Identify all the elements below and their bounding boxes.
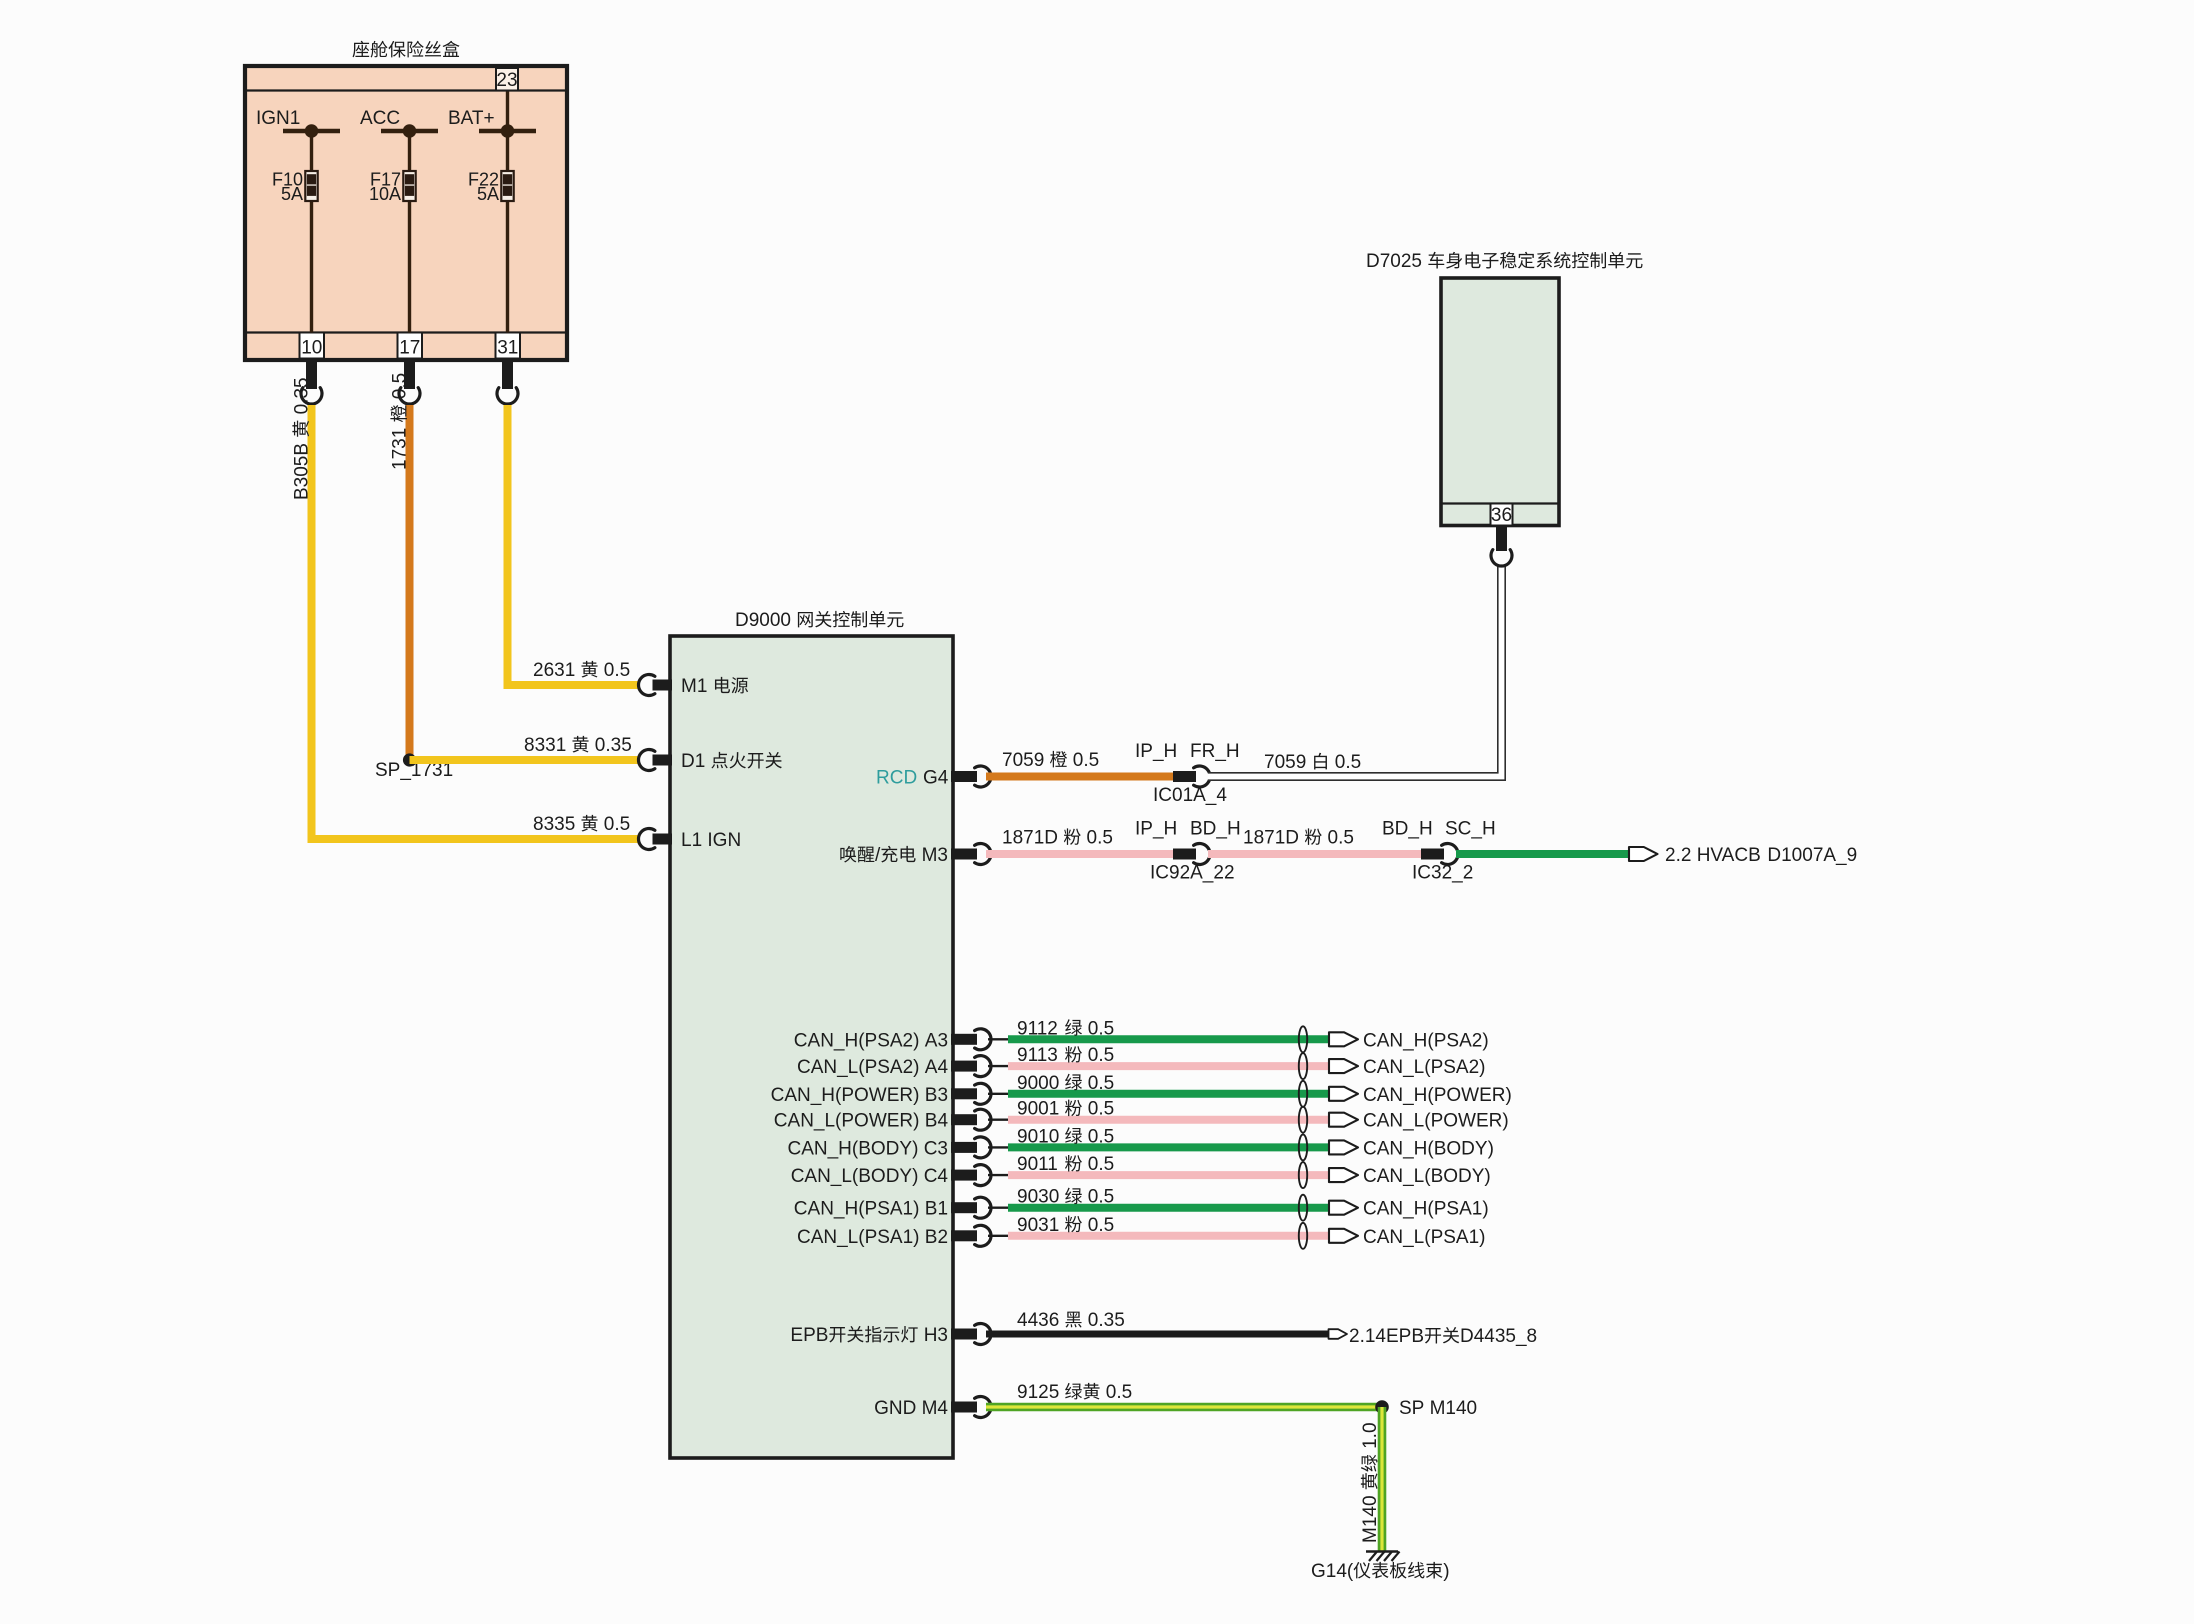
junction IC32_2 (BD_H / SC_H) — [1382, 819, 1496, 884]
ESC control unit D7025 车身电子稳定系统控制单元 — [1441, 278, 1559, 526]
pin M1 (D9000 left) — [638, 675, 748, 698]
node BAT+ bus — [448, 92, 536, 138]
svg-text:CAN_L(PSA1): CAN_L(PSA1) — [797, 1227, 920, 1248]
svg-text:CAN_H(BODY): CAN_H(BODY) — [1363, 1138, 1494, 1159]
wire B305B 黄 0.35 (pin 10 to L1) — [292, 377, 639, 839]
twisted pair mark (CAN_H(PSA2)) — [1299, 1026, 1307, 1052]
svg-text:9011: 9011 — [1017, 1154, 1058, 1175]
pin D1 (D9000 left) — [638, 750, 781, 773]
svg-text:M140: M140 — [1360, 1495, 1381, 1543]
off-page arrow CAN_H(PSA1) — [1329, 1199, 1489, 1220]
pin C3 CAN_H(BODY) (D9000 right) — [788, 1137, 992, 1160]
svg-text:1871D: 1871D — [1002, 828, 1058, 849]
wire 7059 橙 0.5 (G4 to IC01A_4) — [986, 750, 1173, 777]
off-page arrow CAN_H(PSA2) — [1329, 1030, 1489, 1051]
svg-text:BD_H: BD_H — [1382, 819, 1433, 840]
svg-text:1871D: 1871D — [1243, 828, 1299, 849]
fuse F22 5A — [468, 131, 514, 333]
svg-text:): ) — [1443, 1561, 1449, 1582]
svg-text:9000: 9000 — [1017, 1073, 1059, 1094]
svg-text:IC01A_4: IC01A_4 — [1153, 785, 1227, 806]
connector at fuse box pin 10 — [301, 360, 322, 404]
svg-text:CAN_L(BODY): CAN_L(BODY) — [791, 1166, 919, 1187]
pin 31 (fuse box bottom) — [496, 333, 521, 359]
svg-text:9113: 9113 — [1017, 1045, 1058, 1066]
svg-text:IGN: IGN — [707, 830, 741, 851]
svg-text:0.5: 0.5 — [604, 660, 630, 681]
twisted pair mark (CAN_L(PSA1)) — [1299, 1223, 1307, 1249]
svg-text:9010: 9010 — [1017, 1126, 1059, 1147]
pin B2 CAN_L(PSA1) (D9000 right) — [797, 1225, 991, 1248]
twisted pair mark (CAN_L(PSA2)) — [1299, 1053, 1307, 1079]
wire green to 2.2 HVACB D1007A_9 — [1456, 850, 1629, 858]
svg-text:0.5: 0.5 — [1088, 1215, 1114, 1236]
svg-text:2.2: 2.2 — [1665, 845, 1691, 866]
wire 9125 绿黄 0.5 (M4 to SP M140) — [986, 1382, 1382, 1407]
svg-text:0.5: 0.5 — [1088, 1099, 1114, 1120]
wire 9030 绿 0.5 (CAN_H(PSA1)) — [988, 1187, 1329, 1208]
off-page arrow CAN_L(PSA1) — [1329, 1227, 1486, 1248]
svg-text:0.5: 0.5 — [1088, 1018, 1114, 1039]
connector at fuse box pin 31 — [497, 360, 518, 404]
pin G4 RCD (D9000 right) — [876, 766, 991, 789]
svg-text:CAN_H(PSA2): CAN_H(PSA2) — [794, 1030, 920, 1051]
connector at D7025 pin 36 — [1491, 526, 1512, 567]
twisted pair mark (CAN_L(BODY)) — [1299, 1162, 1307, 1188]
wire 9010 绿 0.5 (CAN_H(BODY)) — [988, 1126, 1329, 1147]
svg-text:RCD: RCD — [876, 768, 917, 789]
wire 9113 粉 0.5 (CAN_L(PSA2)) — [988, 1045, 1329, 1066]
off-page arrow CAN_H(POWER) — [1329, 1085, 1512, 1106]
svg-text:EPB: EPB — [790, 1325, 828, 1346]
svg-text:CAN_H(POWER): CAN_H(POWER) — [1363, 1085, 1512, 1106]
pin B1 CAN_H(PSA1) (D9000 right) — [794, 1197, 991, 1219]
svg-text:D1: D1 — [681, 751, 705, 772]
wire 9000 绿 0.5 (CAN_H(POWER)) — [988, 1073, 1329, 1094]
svg-text:4436: 4436 — [1017, 1310, 1059, 1331]
svg-text:BAT+: BAT+ — [448, 108, 495, 129]
svg-text:G14(: G14( — [1311, 1561, 1354, 1582]
twisted pair mark (CAN_L(POWER)) — [1299, 1107, 1307, 1133]
pin 17 (fuse box bottom) — [398, 333, 423, 359]
pin C4 CAN_L(BODY) (D9000 right) — [791, 1165, 991, 1187]
pin 36 (D7025 bottom) — [1491, 504, 1513, 527]
pin B3 CAN_H(POWER) (D9000 right) — [771, 1083, 991, 1106]
svg-text:8335: 8335 — [533, 814, 575, 835]
svg-text:0.5: 0.5 — [1073, 750, 1099, 771]
node SP M140 — [1375, 1398, 1477, 1419]
node IGN1 bus — [256, 108, 340, 138]
svg-text:9031: 9031 — [1017, 1215, 1059, 1236]
svg-text:CAN_L(POWER): CAN_L(POWER) — [1363, 1111, 1509, 1132]
svg-text:IP_H: IP_H — [1135, 819, 1177, 840]
svg-text:0.5: 0.5 — [604, 814, 630, 835]
svg-text:10A: 10A — [369, 184, 401, 204]
junction IC92A_22 (IP_H / BD_H) — [1135, 819, 1241, 884]
pin M3 唤醒/充电 (D9000 right) — [840, 844, 991, 866]
off-page arrow 2.14 EPB 开关 D4435_8 — [1329, 1326, 1538, 1347]
svg-text:23: 23 — [496, 70, 517, 91]
wire 4436 黑 0.35 (H3 to EPB switch) — [986, 1310, 1328, 1334]
svg-text:CAN_H(BODY): CAN_H(BODY) — [788, 1138, 919, 1159]
svg-text:CAN_L(PSA2): CAN_L(PSA2) — [797, 1057, 920, 1078]
svg-text:IP_H: IP_H — [1135, 741, 1177, 762]
pin 10 (fuse box bottom) — [300, 333, 325, 359]
wire 2631 黄 0.5 (pin 31 to M1) — [508, 405, 639, 685]
svg-text:GND: GND — [874, 1398, 916, 1419]
wire M140 黄绿 1.0 (SP M140 to ground) — [1360, 1407, 1382, 1551]
fuse box title 座舱保险丝盒 — [352, 41, 459, 58]
twisted pair mark (CAN_H(POWER)) — [1299, 1081, 1307, 1107]
svg-text:D4435_8: D4435_8 — [1460, 1326, 1537, 1347]
pin 23 (fuse box top) — [496, 68, 518, 91]
fuse box 座舱保险丝盒 — [245, 66, 567, 360]
off-page arrow CAN_L(BODY) — [1329, 1166, 1491, 1187]
pin B4 CAN_L(POWER) (D9000 right) — [774, 1109, 991, 1131]
junction IC01A_4 (IP_H / FR_H) — [1135, 741, 1240, 806]
wire 1871D 粉 0.5 (IC92A_22 to IC32_2) — [1208, 828, 1421, 855]
svg-text:SC_H: SC_H — [1445, 819, 1496, 840]
connector at fuse box pin 17 — [399, 360, 420, 404]
svg-text:7059: 7059 — [1002, 750, 1044, 771]
svg-text:BD_H: BD_H — [1190, 819, 1241, 840]
D7025 title — [1366, 251, 1643, 272]
svg-text:IGN1: IGN1 — [256, 108, 300, 129]
svg-text:0.5: 0.5 — [1088, 1126, 1114, 1147]
svg-text:9001: 9001 — [1017, 1099, 1059, 1120]
pin A3 CAN_H(PSA2) (D9000 right) — [794, 1029, 991, 1052]
svg-text:B3: B3 — [925, 1085, 948, 1106]
wire 1731 橙 0.5 (pin 17 to SP_1731) — [390, 373, 411, 760]
svg-text:0.5: 0.5 — [1106, 1382, 1132, 1403]
svg-text:B4: B4 — [925, 1111, 949, 1132]
svg-text:L1: L1 — [681, 830, 702, 851]
svg-text:1.0: 1.0 — [1360, 1422, 1381, 1448]
wire 9001 粉 0.5 (CAN_L(POWER)) — [988, 1099, 1329, 1120]
svg-text:G4: G4 — [923, 768, 949, 789]
node ACC bus — [360, 108, 438, 138]
wire 9011 粉 0.5 (CAN_L(BODY)) — [988, 1154, 1329, 1175]
node SP_1731 — [375, 753, 453, 781]
svg-text:M3: M3 — [922, 845, 948, 866]
wire 1871D 粉 0.5 (M3 to IC92A_22) — [986, 828, 1173, 855]
svg-text:0.5: 0.5 — [1088, 1187, 1114, 1208]
svg-text:/: / — [875, 845, 881, 866]
svg-text:IC32_2: IC32_2 — [1412, 863, 1473, 884]
svg-text:CAN_L(PSA1): CAN_L(PSA1) — [1363, 1227, 1486, 1248]
svg-text:31: 31 — [497, 338, 518, 359]
svg-text:0.5: 0.5 — [1088, 1154, 1114, 1175]
pin A4 CAN_L(PSA2) (D9000 right) — [797, 1056, 991, 1078]
svg-text:2631: 2631 — [533, 660, 575, 681]
svg-text:36: 36 — [1491, 505, 1512, 526]
svg-text:0.5: 0.5 — [390, 373, 411, 399]
svg-text:B2: B2 — [925, 1227, 948, 1248]
svg-text:0.35: 0.35 — [1088, 1310, 1125, 1331]
svg-text:SP: SP — [1399, 1398, 1424, 1419]
svg-text:CAN_H(PSA1): CAN_H(PSA1) — [1363, 1199, 1489, 1220]
svg-text:CAN_L(BODY): CAN_L(BODY) — [1363, 1166, 1491, 1187]
svg-text:10: 10 — [301, 338, 322, 359]
svg-text:C4: C4 — [924, 1166, 949, 1187]
svg-text:0.35: 0.35 — [292, 377, 313, 414]
svg-text:FR_H: FR_H — [1190, 741, 1240, 762]
svg-text:0.5: 0.5 — [1087, 828, 1113, 849]
ground G14 — [1311, 1552, 1450, 1583]
wire 8331 黄 0.35 (SP_1731 to D1) — [410, 735, 639, 760]
svg-text:B1: B1 — [925, 1199, 948, 1220]
svg-text:CAN_L(PSA2): CAN_L(PSA2) — [1363, 1057, 1486, 1078]
svg-text:8331: 8331 — [524, 735, 566, 756]
wire 9031 粉 0.5 (CAN_L(PSA1)) — [988, 1215, 1329, 1236]
svg-text:9112: 9112 — [1017, 1018, 1058, 1039]
svg-text:0.5: 0.5 — [1335, 752, 1361, 773]
svg-text:0.5: 0.5 — [1088, 1073, 1114, 1094]
svg-text:IC92A_22: IC92A_22 — [1150, 863, 1235, 884]
wire 7059 白 0.5 (IC01A_4 to D7025 pin 36) — [1208, 566, 1502, 777]
svg-text:5A: 5A — [281, 184, 303, 204]
D9000 title — [735, 610, 904, 631]
svg-text:9125: 9125 — [1017, 1382, 1059, 1403]
gateway control unit D9000 网关控制单元 — [670, 636, 953, 1458]
svg-text:7059: 7059 — [1264, 752, 1306, 773]
svg-text:0.5: 0.5 — [1328, 828, 1354, 849]
off-page arrow CAN_H(BODY) — [1329, 1138, 1494, 1159]
off-page arrow 2.2 HVACB D1007A_9 — [1629, 845, 1857, 866]
svg-text:9030: 9030 — [1017, 1187, 1059, 1208]
fuse F17 10A — [369, 131, 416, 333]
twisted pair mark (CAN_H(PSA1)) — [1299, 1195, 1307, 1221]
svg-text:0.5: 0.5 — [1088, 1045, 1114, 1066]
pin H3 EPB开关指示灯 (D9000 right) — [790, 1324, 991, 1346]
svg-text:5A: 5A — [477, 184, 499, 204]
svg-text:A3: A3 — [925, 1030, 948, 1051]
pin M4 GND (D9000 right) — [874, 1397, 991, 1419]
svg-text:M140: M140 — [1430, 1398, 1478, 1419]
off-page arrow CAN_L(PSA2) — [1329, 1057, 1486, 1078]
svg-text:D1007A_9: D1007A_9 — [1767, 845, 1857, 866]
off-page arrow CAN_L(POWER) — [1329, 1111, 1509, 1132]
wire 8335 黄 0.5 label (L1 row) — [533, 814, 630, 835]
fuse F10 5A — [272, 131, 318, 333]
svg-text:H3: H3 — [924, 1325, 948, 1346]
svg-text:A4: A4 — [925, 1057, 949, 1078]
svg-text:CAN_L(POWER): CAN_L(POWER) — [774, 1111, 920, 1132]
svg-text:M4: M4 — [922, 1398, 949, 1419]
svg-text:ACC: ACC — [360, 108, 400, 129]
svg-text:CAN_H(PSA1): CAN_H(PSA1) — [794, 1199, 920, 1220]
wire 9112 绿 0.5 (CAN_H(PSA2)) — [988, 1018, 1329, 1039]
pin L1 (D9000 left) — [638, 829, 741, 852]
svg-text:1731: 1731 — [390, 428, 411, 470]
svg-text:17: 17 — [399, 338, 420, 359]
svg-text:D7025: D7025 — [1366, 251, 1422, 272]
svg-text:HVACB: HVACB — [1697, 845, 1761, 866]
svg-text:M1: M1 — [681, 676, 707, 697]
svg-text:C3: C3 — [924, 1138, 948, 1159]
svg-text:D9000: D9000 — [735, 610, 791, 631]
svg-text:0.35: 0.35 — [595, 735, 632, 756]
svg-text:CAN_H(PSA2): CAN_H(PSA2) — [1363, 1030, 1489, 1051]
svg-text:CAN_H(POWER): CAN_H(POWER) — [771, 1085, 920, 1106]
twisted pair mark (CAN_H(BODY)) — [1299, 1134, 1307, 1160]
svg-text:B305B: B305B — [292, 443, 313, 500]
svg-text:2.14EPB: 2.14EPB — [1349, 1326, 1424, 1347]
